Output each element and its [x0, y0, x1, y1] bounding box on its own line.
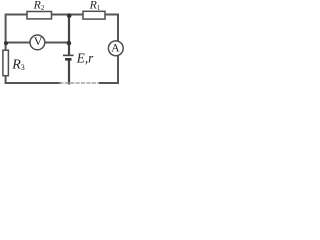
resistor R3 [3, 50, 8, 75]
wire battery branch lower [68, 60, 70, 83]
wire top middle segment [52, 14, 84, 16]
wire middle rail right [45, 42, 69, 44]
wire battery branch upper [68, 15, 70, 55]
resistor R1 [83, 11, 105, 19]
voltmeter V circle [30, 35, 45, 50]
wire bottom solid left [6, 82, 60, 84]
battery E,r short plate [65, 58, 71, 61]
wire left stub below R3 [5, 76, 7, 83]
svg-text:A: A [111, 43, 120, 55]
node middle rail junction [67, 41, 72, 46]
resistor R2 [27, 12, 52, 19]
node top junction [67, 14, 72, 19]
wire middle rail left [6, 42, 31, 44]
node left rail junction [4, 41, 8, 45]
wire top-left segment and left border [6, 15, 27, 51]
wire bottom solid right [100, 82, 118, 84]
svg-text:V: V [34, 34, 43, 48]
node bottom junction [68, 82, 71, 85]
ammeter A circle [108, 41, 123, 56]
wire top-right segment and right border [105, 15, 118, 84]
battery E,r long plate [63, 54, 74, 56]
svg-text:E,r: E,r [76, 50, 94, 65]
wire bottom faded middle [60, 82, 100, 84]
